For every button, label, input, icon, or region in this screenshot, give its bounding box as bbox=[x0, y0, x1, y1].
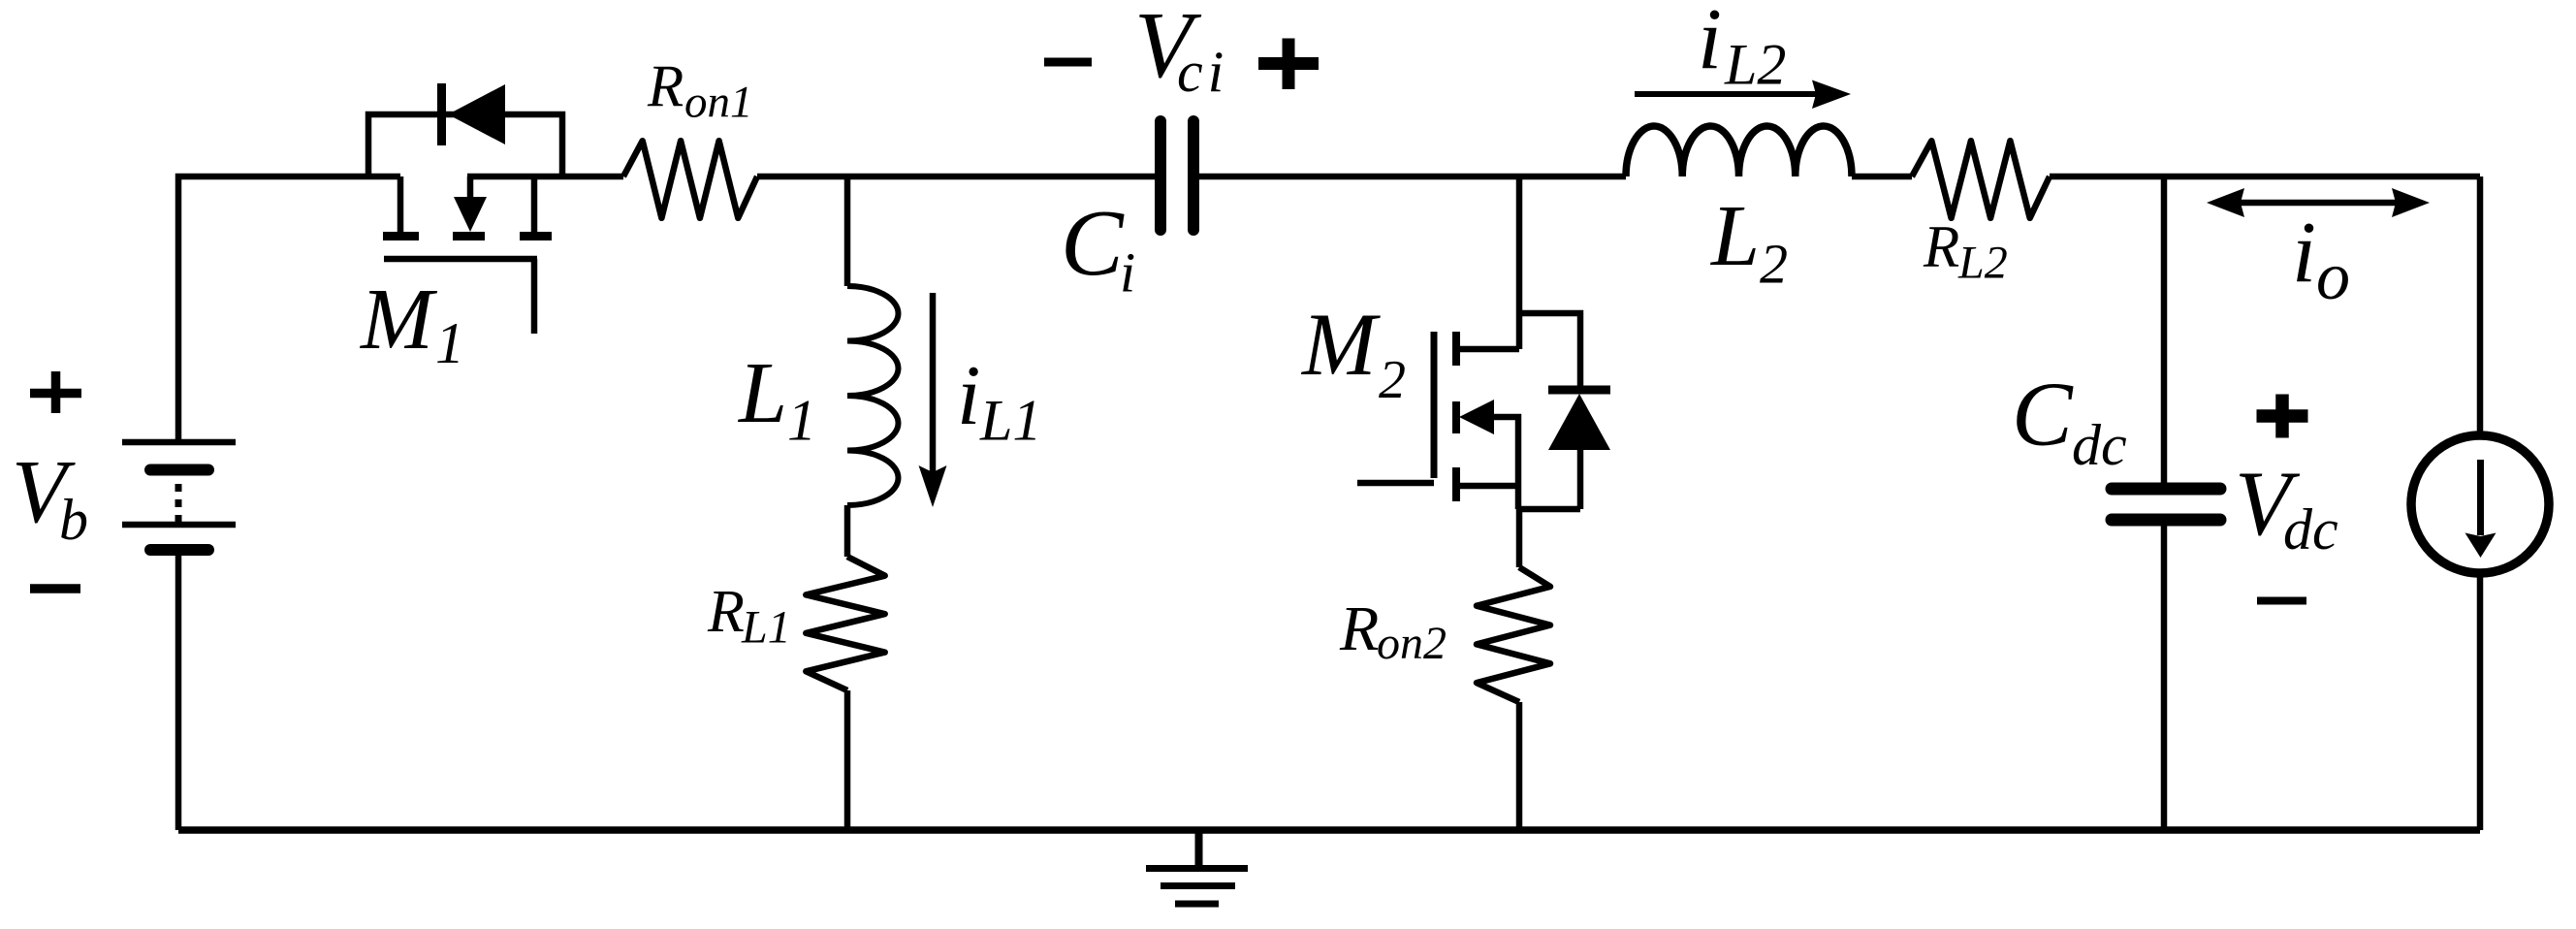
transistor M1 body arrow head bbox=[454, 197, 487, 232]
svg-text:L1: L1 bbox=[741, 602, 791, 654]
battery Vb dotted middle bbox=[175, 484, 182, 524]
transistor M2 channel bar top bbox=[1452, 332, 1460, 366]
battery Vb plate long bottom bbox=[122, 522, 236, 529]
wire: Ron2 to bottom rail bbox=[1516, 702, 1523, 830]
diode D2 anode leg bbox=[1577, 450, 1584, 509]
wire: Ci to L2 bbox=[1199, 174, 1626, 180]
diode D2 branch wires bbox=[1519, 313, 1580, 387]
wire: right edge top bbox=[2477, 176, 2484, 433]
svg-text:L2: L2 bbox=[1724, 33, 1786, 97]
transistor M2 body arrow head bbox=[1459, 400, 1494, 434]
current source arrow head bbox=[2465, 533, 2496, 559]
ground bar 2 bbox=[1161, 882, 1235, 889]
ground bar 1 bbox=[1146, 865, 1248, 872]
transistor M1 gate line bbox=[384, 256, 537, 263]
svg-text:on2: on2 bbox=[1377, 618, 1447, 669]
resistor RL1 zigzag bbox=[806, 557, 884, 690]
diode D2 cathode bar bbox=[1548, 386, 1610, 395]
diode D1 triangle bbox=[448, 84, 505, 144]
svg-text:L1: L1 bbox=[979, 389, 1041, 453]
wire: RL1 to bottom rail bbox=[844, 690, 851, 830]
transistor M1 body stub bbox=[467, 176, 474, 200]
svg-text:1: 1 bbox=[435, 311, 464, 375]
svg-text:R: R bbox=[1339, 593, 1379, 664]
svg-text:on1: on1 bbox=[684, 78, 753, 128]
wire: L2 to RL2 bbox=[1852, 174, 1912, 180]
wire: bottom rail bbox=[178, 826, 2480, 834]
wire: RL2 to right edge bbox=[2050, 174, 2480, 180]
arrow iL2 shaft bbox=[1635, 91, 1823, 97]
svg-text:dc: dc bbox=[2283, 497, 2338, 561]
wire: left edge top segment bbox=[178, 176, 400, 442]
transistor M2 source stub bbox=[1459, 483, 1519, 490]
svg-text:i: i bbox=[957, 349, 980, 443]
ground bar 3 bbox=[1175, 901, 1219, 908]
transistor M2 channel bar middle bbox=[1452, 401, 1460, 433]
arrow io shaft bbox=[2220, 200, 2406, 207]
battery Vb plate short bottom bbox=[150, 544, 208, 556]
transistor M2 source connector bbox=[1519, 506, 1580, 513]
transistor M2 drain stub bbox=[1459, 346, 1519, 353]
resistor Ron1 zigzag bbox=[623, 141, 757, 218]
transistor M2 body line bbox=[1491, 417, 1518, 509]
svg-text:o: o bbox=[2316, 240, 2350, 314]
label plus Vb bbox=[30, 371, 81, 413]
svg-text:2: 2 bbox=[1379, 350, 1406, 410]
capacitor Ci left plate bbox=[1155, 121, 1166, 230]
transistor M1 channel bar left bbox=[383, 232, 419, 240]
transistor M2 drain column bbox=[1516, 176, 1523, 349]
label plus Vci bbox=[1258, 39, 1319, 90]
label plus Vdc bbox=[2257, 395, 2308, 438]
wire: Cdc branch top bbox=[2161, 176, 2168, 483]
svg-text:M: M bbox=[1300, 295, 1381, 394]
svg-text:C: C bbox=[2012, 365, 2074, 465]
capacitor Ci right plate bbox=[1188, 121, 1199, 230]
transistor M2 gate lead bbox=[1357, 480, 1434, 487]
capacitor Cdc top plate bbox=[2112, 483, 2220, 496]
resistor RL2 zigzag bbox=[1912, 141, 2050, 218]
svg-text:2: 2 bbox=[1760, 233, 1788, 296]
arrow io right head bbox=[2392, 188, 2430, 217]
svg-text:C: C bbox=[1061, 191, 1125, 295]
transistor M1 channel bar middle bbox=[453, 232, 485, 240]
label minus Vdc bbox=[2257, 597, 2306, 605]
battery Vb plate short top bbox=[150, 464, 208, 476]
arrow iL1 head bbox=[919, 465, 947, 507]
arrow iL1 shaft bbox=[930, 293, 937, 480]
capacitor Cdc bottom plate bbox=[2112, 514, 2220, 527]
svg-text:i: i bbox=[2292, 205, 2316, 301]
svg-text:L: L bbox=[737, 345, 787, 441]
arrow iL2 head bbox=[1812, 80, 1851, 110]
wire: M1 source to Ron1 bbox=[467, 174, 623, 180]
diode D1 loop wires bbox=[368, 114, 562, 176]
svg-text:R: R bbox=[647, 54, 684, 119]
svg-text:M: M bbox=[359, 272, 438, 368]
svg-text:b: b bbox=[59, 488, 88, 552]
wire: right edge bottom bbox=[2477, 575, 2484, 830]
current source arrow shaft bbox=[2477, 460, 2484, 535]
svg-text:R: R bbox=[1923, 215, 1959, 280]
transistor M2 gate bar bbox=[1431, 332, 1438, 478]
transistor M1 gate lead bbox=[531, 259, 538, 334]
arrow io left head bbox=[2207, 188, 2244, 217]
wire: M2 to Ron2 bbox=[1516, 509, 1523, 567]
wire: left edge bottom segment bbox=[175, 550, 182, 830]
transistor M2 channel bar bottom bbox=[1452, 467, 1460, 501]
label minus Vb bbox=[30, 584, 80, 593]
svg-text:i: i bbox=[1698, 0, 1722, 87]
transistor M1 drain stub bbox=[398, 176, 404, 232]
svg-text:ci: ci bbox=[1177, 40, 1228, 104]
wire: Cdc to bottom rail bbox=[2161, 526, 2168, 830]
wire: Ron1 to Ci bbox=[757, 174, 1155, 180]
wire: L1 branch top bbox=[844, 176, 851, 286]
ground stem bbox=[1195, 830, 1203, 865]
svg-text:i: i bbox=[1120, 241, 1135, 304]
resistor Ron2 zigzag bbox=[1477, 567, 1550, 702]
inductor L2 coil bbox=[1626, 126, 1852, 176]
transistor M1 channel bar right bbox=[520, 232, 552, 240]
diode D2 triangle bbox=[1548, 394, 1610, 450]
diode D1 cathode bar bbox=[437, 83, 446, 145]
svg-text:dc: dc bbox=[2072, 413, 2127, 477]
battery Vb plate long top bbox=[122, 439, 236, 446]
wire: L1 to RL1 bbox=[844, 505, 851, 557]
transistor M1 source stub bbox=[531, 176, 538, 232]
svg-text:R: R bbox=[707, 579, 745, 645]
svg-text:L2: L2 bbox=[1957, 238, 2008, 289]
current source circle bbox=[2411, 435, 2549, 573]
label minus Vci bbox=[1044, 58, 1092, 67]
svg-text:L: L bbox=[1709, 188, 1760, 284]
inductor L1 coil bbox=[847, 286, 899, 505]
svg-text:1: 1 bbox=[787, 389, 816, 453]
